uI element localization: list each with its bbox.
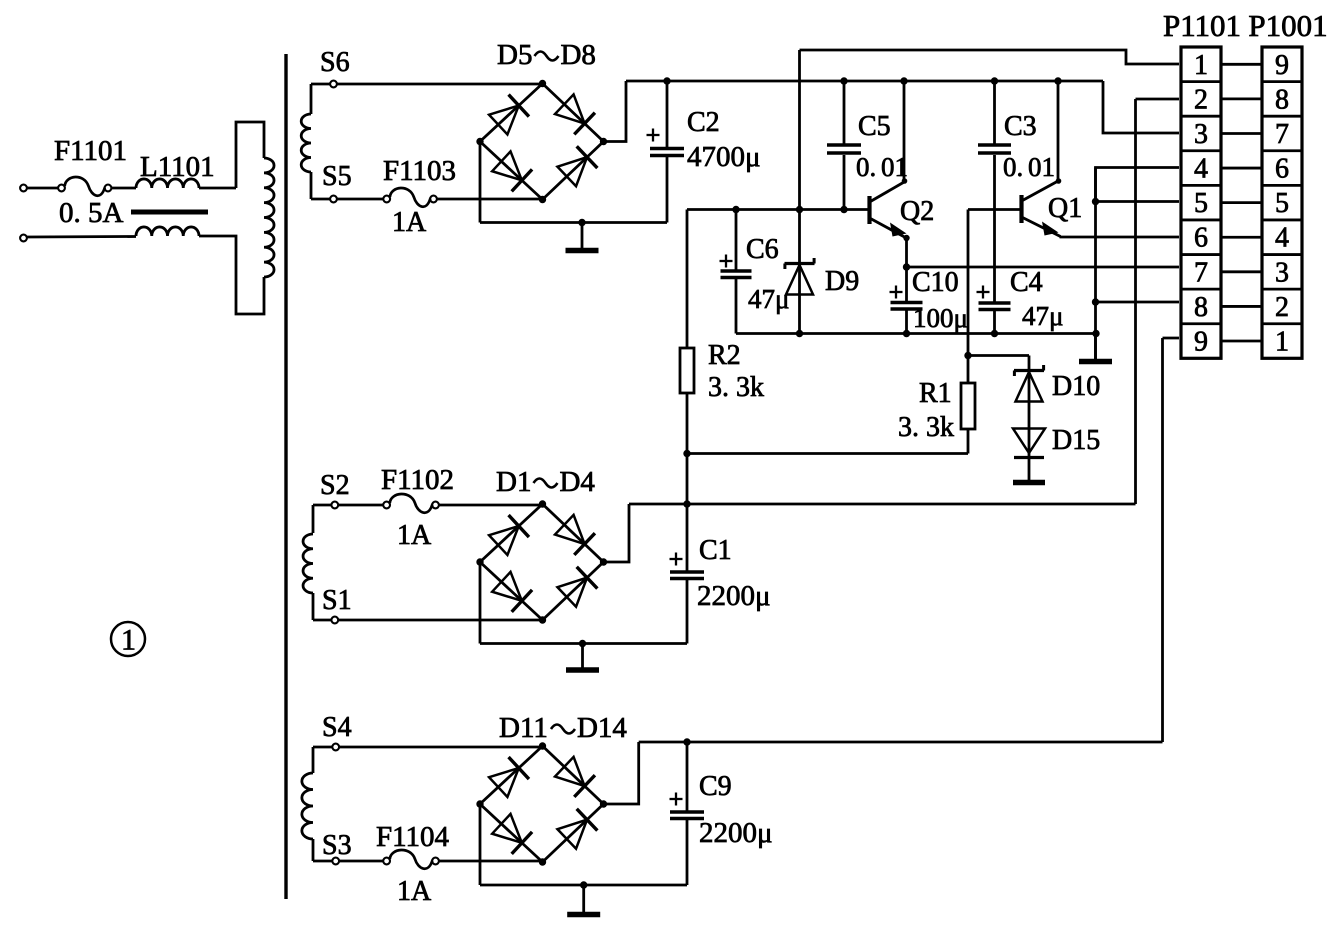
svg-text:7: 7 [1194,257,1208,288]
svg-text:D14: D14 [577,712,627,744]
svg-text:1: 1 [1275,327,1289,358]
svg-text:C2: C2 [687,107,720,138]
svg-text:D8: D8 [560,39,595,71]
svg-text:Q1: Q1 [1048,193,1082,224]
svg-text:1: 1 [121,624,136,657]
svg-text:2: 2 [1194,84,1208,115]
svg-text:C3: C3 [1004,111,1037,142]
svg-text:P1001: P1001 [1248,8,1327,43]
svg-text:8: 8 [1275,84,1289,115]
svg-text:47μ: 47μ [748,284,789,314]
svg-text:0.: 0. [1003,152,1023,182]
svg-text:9: 9 [1194,327,1208,358]
svg-text:8: 8 [1194,292,1208,323]
svg-text:2200μ: 2200μ [699,817,773,849]
svg-text:0.: 0. [856,152,876,182]
svg-text:C9: C9 [699,771,732,802]
svg-text:4: 4 [1194,154,1208,185]
svg-text:R1: R1 [919,378,952,409]
svg-text:6: 6 [1194,223,1208,254]
svg-text:C6: C6 [746,234,779,265]
svg-text:C4: C4 [1010,267,1043,298]
svg-text:4700μ: 4700μ [687,141,761,173]
svg-text:F1101: F1101 [54,135,127,167]
svg-text:S3: S3 [322,830,352,861]
svg-text:D9: D9 [825,266,859,297]
svg-text:0. 5A: 0. 5A [59,197,124,229]
svg-text:Q2: Q2 [900,196,934,227]
svg-text:5: 5 [1194,188,1208,219]
svg-text:D5: D5 [497,39,532,71]
svg-text:3. 3k: 3. 3k [708,372,764,403]
svg-text:S1: S1 [322,585,352,616]
svg-text:2200μ: 2200μ [697,580,771,612]
svg-text:L1101: L1101 [140,151,215,183]
svg-text:1A: 1A [397,876,432,907]
svg-text:R2: R2 [708,340,741,371]
svg-text:3: 3 [1194,119,1208,150]
svg-text:1A: 1A [397,520,432,551]
svg-text:F1102: F1102 [381,464,454,496]
svg-text:S6: S6 [320,47,350,78]
svg-text:C10: C10 [912,267,959,298]
svg-text:7: 7 [1275,119,1289,150]
svg-text:2: 2 [1275,292,1289,323]
svg-text:D10: D10 [1052,371,1100,402]
svg-text:1: 1 [1194,50,1208,81]
svg-text:D11: D11 [499,712,548,744]
svg-text:S2: S2 [320,470,350,501]
svg-text:6: 6 [1275,154,1289,185]
svg-text:4: 4 [1275,223,1289,254]
svg-text:D15: D15 [1052,425,1100,456]
svg-text:D1: D1 [496,466,531,498]
svg-text:47μ: 47μ [1022,301,1063,331]
svg-text:3. 3k: 3. 3k [898,412,954,443]
svg-text:S5: S5 [322,161,352,192]
svg-text:9: 9 [1275,50,1289,81]
svg-text:P1101: P1101 [1163,8,1241,43]
svg-text:S4: S4 [322,712,352,743]
svg-text:F1104: F1104 [376,821,450,853]
svg-text:01: 01 [1028,152,1055,182]
svg-text:1A: 1A [392,207,427,238]
svg-text:100μ: 100μ [913,303,968,333]
svg-text:3: 3 [1275,257,1289,288]
svg-text:5: 5 [1275,188,1289,219]
svg-text:F1103: F1103 [383,155,456,187]
svg-text:C1: C1 [699,535,732,566]
svg-text:D4: D4 [559,466,595,498]
svg-text:C5: C5 [858,111,891,142]
